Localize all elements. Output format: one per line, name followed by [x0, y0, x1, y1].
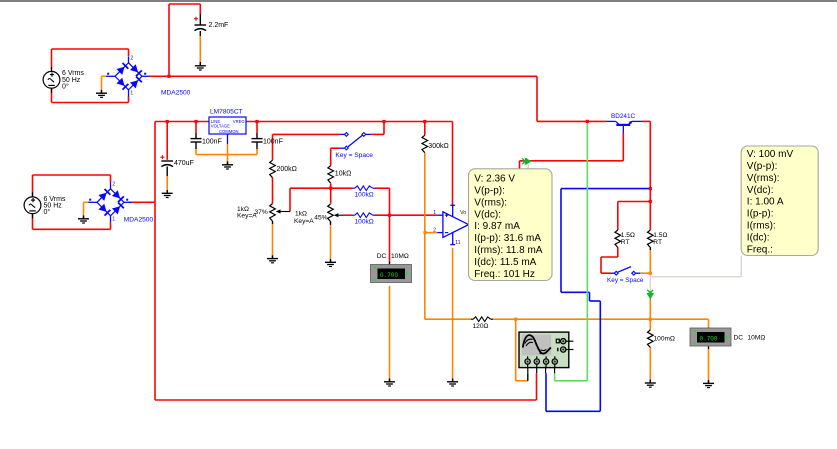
ground — [162, 190, 173, 197]
wire — [649, 347, 651, 380]
svg-text:2.2mF: 2.2mF — [209, 22, 229, 29]
wire — [649, 299, 651, 330]
svg-text:10MΩ: 10MΩ — [391, 253, 409, 260]
wire — [383, 122, 385, 135]
svg-text:V(rms):: V(rms): — [474, 197, 507, 208]
svg-text:BD241C: BD241C — [611, 113, 636, 120]
switch S1 — [340, 133, 345, 135]
wire — [389, 286, 391, 379]
wire — [331, 147, 340, 149]
wire — [32, 214, 34, 229]
ground — [195, 63, 206, 70]
wire — [515, 319, 517, 381]
svg-text:I(rms): 11.8 mA: I(rms): 11.8 mA — [474, 245, 542, 256]
svg-text:0°: 0° — [44, 208, 51, 216]
resistor R3 10k — [328, 166, 334, 184]
junction — [649, 187, 652, 190]
probe arrow — [525, 158, 532, 165]
multimeter XMM1 — [371, 265, 412, 283]
svg-text:I(dc):: I(dc): — [747, 233, 770, 244]
wire — [527, 373, 529, 381]
wire — [195, 142, 197, 149]
svg-text:DC: DC — [734, 334, 744, 341]
svg-text:1.5Ω: 1.5Ω — [621, 232, 635, 239]
wire — [154, 122, 156, 401]
svg-text:COMMON: COMMON — [219, 129, 239, 134]
svg-text:V(p-p):: V(p-p): — [747, 161, 778, 172]
ground — [222, 162, 233, 169]
svg-text:10kΩ: 10kΩ — [335, 170, 352, 177]
wire — [51, 49, 53, 70]
wire — [149, 75, 537, 77]
svg-text:V(dc):: V(dc): — [747, 185, 774, 196]
svg-text:470uF: 470uF — [174, 160, 194, 167]
capacitor C4 100nF — [252, 139, 263, 142]
probe arrow — [647, 293, 654, 300]
svg-text:V(dc):: V(dc): — [474, 209, 501, 220]
svg-text:V(p-p):: V(p-p): — [474, 185, 505, 196]
wire — [389, 262, 391, 265]
wire — [168, 4, 170, 76]
ground — [447, 379, 458, 386]
svg-text:RT: RT — [621, 239, 630, 246]
polarity mark C1 — [194, 17, 198, 21]
wire — [256, 122, 258, 134]
wire — [272, 221, 274, 224]
capacitor C3 100nF — [191, 139, 202, 142]
wire — [84, 201, 89, 203]
resistor R11 100m — [648, 330, 654, 348]
wire — [102, 75, 107, 77]
potentiometer R4 1k 45% — [328, 204, 334, 222]
wire — [330, 148, 332, 165]
wire — [166, 167, 168, 177]
resistor R1 200k — [270, 160, 276, 178]
AC source V1 — [43, 67, 60, 93]
svg-text:2: 2 — [433, 228, 436, 234]
wire — [199, 14, 201, 25]
wire — [199, 31, 201, 36]
ground — [645, 380, 656, 387]
junction — [649, 272, 652, 275]
resistor R10 120 — [471, 318, 473, 320]
wire — [493, 318, 709, 320]
svg-text:I(p-p):: I(p-p): — [747, 209, 774, 220]
oscilloscope XSC1 — [519, 332, 573, 368]
resistor R6 100k — [353, 187, 355, 189]
wire — [256, 142, 258, 149]
wire — [708, 319, 710, 327]
wire — [617, 202, 619, 231]
wire — [527, 163, 529, 169]
svg-text:Vo: Vo — [460, 210, 466, 216]
wire — [617, 247, 619, 257]
wire — [389, 215, 391, 261]
svg-text:RT: RT — [653, 239, 662, 246]
junction — [423, 231, 426, 234]
wire — [452, 248, 454, 379]
svg-text:100mΩ: 100mΩ — [654, 335, 675, 342]
wire — [289, 188, 291, 211]
wire — [330, 222, 332, 226]
wire — [375, 214, 437, 216]
junction — [329, 187, 332, 190]
wire — [649, 247, 651, 250]
junction — [423, 120, 426, 123]
svg-text:Freq.:: Freq.: — [747, 245, 773, 256]
ground — [267, 256, 278, 263]
wire — [649, 275, 651, 294]
resistor R9 1.5 RT — [648, 230, 654, 248]
junction — [167, 75, 170, 78]
svg-text:Freq.: 101 Hz: Freq.: 101 Hz — [474, 269, 535, 280]
multimeter XMM2 — [690, 328, 731, 346]
svg-text:1kΩ: 1kΩ — [295, 210, 307, 217]
wire — [166, 122, 168, 160]
wire — [273, 133, 340, 135]
ground — [384, 379, 395, 386]
wire — [708, 346, 710, 349]
wire — [195, 122, 197, 134]
svg-text:100nF: 100nF — [202, 138, 222, 145]
svg-text:100nF: 100nF — [263, 138, 283, 145]
wire — [424, 153, 426, 319]
svg-text:I: 9.87 mA: I: 9.87 mA — [474, 221, 520, 232]
wire — [32, 175, 34, 197]
wire — [586, 122, 588, 381]
polarity mark C2 — [160, 155, 164, 159]
svg-text:0.700: 0.700 — [380, 272, 398, 279]
potentiometer R2 1k 37% — [270, 204, 276, 222]
capacitor C1 2.2mF — [195, 25, 207, 31]
wire — [642, 120, 651, 122]
junction — [255, 120, 258, 123]
bridge rectifier D1 MDA2500 — [106, 57, 149, 97]
ground — [703, 380, 714, 387]
svg-text:V(rms):: V(rms): — [747, 173, 780, 184]
svg-text:2: 2 — [130, 55, 133, 61]
wire — [330, 183, 332, 203]
junction — [194, 120, 197, 123]
wire — [246, 121, 453, 123]
svg-text:DC: DC — [377, 253, 387, 260]
wire — [272, 134, 274, 160]
svg-text:300kΩ: 300kΩ — [428, 143, 448, 150]
wire — [130, 201, 156, 203]
svg-text:45%: 45% — [314, 214, 327, 221]
svg-text:120Ω: 120Ω — [473, 323, 489, 330]
wire — [425, 232, 438, 234]
svg-text:11: 11 — [455, 240, 460, 246]
switch S2 — [610, 272, 614, 274]
svg-text:VREG: VREG — [233, 119, 245, 124]
svg-text:LM7805CT: LM7805CT — [210, 109, 243, 116]
wire — [344, 214, 353, 216]
svg-text:2: 2 — [112, 181, 115, 187]
svg-text:100kΩ: 100kΩ — [355, 191, 374, 198]
wire — [51, 89, 53, 103]
transistor Q1 BD241C — [607, 120, 616, 122]
wire — [227, 144, 229, 161]
wire — [561, 188, 650, 190]
svg-text:I: 1.00 A: I: 1.00 A — [747, 197, 784, 208]
junction — [166, 120, 169, 123]
svg-text:100kΩ: 100kΩ — [355, 218, 374, 225]
svg-text:I(rms):: I(rms): — [747, 221, 776, 232]
junction — [649, 318, 652, 321]
op-amp U2 — [443, 212, 469, 238]
wire — [640, 272, 650, 274]
svg-text:1: 1 — [130, 91, 133, 97]
resistor R8 1.5 RT — [615, 230, 621, 248]
resistor R5 300k — [422, 135, 428, 153]
svg-text:I(dc): 11.5 mA: I(dc): 11.5 mA — [474, 257, 536, 268]
voltage regulator U1 LM7805CT — [209, 117, 246, 134]
svg-text:V: 100 mV: V: 100 mV — [747, 149, 794, 160]
svg-text:200kΩ: 200kΩ — [277, 166, 297, 173]
svg-text:MDA2500: MDA2500 — [124, 217, 154, 224]
tooltip probe 1 — [469, 169, 553, 281]
svg-text:0°: 0° — [62, 82, 69, 90]
svg-text:0.700: 0.700 — [700, 335, 718, 342]
svg-text:Key=A: Key=A — [294, 218, 314, 225]
svg-text:1: 1 — [112, 217, 115, 223]
junction — [388, 214, 391, 217]
tooltip probe 2 — [741, 146, 818, 256]
capacitor C2 470uF — [161, 161, 173, 167]
wire — [425, 318, 471, 320]
junction — [649, 200, 652, 203]
svg-text:I(p-p): 31.6 mA: I(p-p): 31.6 mA — [474, 233, 541, 244]
resistor R7 100k — [353, 214, 355, 216]
AC source V2 — [24, 192, 41, 218]
svg-text:Key = Space: Key = Space — [607, 277, 644, 284]
svg-text:37%: 37% — [255, 209, 268, 216]
bridge rectifier D2 MDA2500 — [88, 183, 131, 223]
ground — [325, 259, 336, 266]
scope terminal stubs — [527, 367, 529, 374]
junction — [382, 120, 385, 123]
wire — [272, 178, 274, 204]
svg-text:10MΩ: 10MΩ — [748, 334, 766, 341]
svg-text:Key = Space: Key = Space — [335, 152, 373, 159]
svg-text:V: 2.36 V: V: 2.36 V — [474, 173, 515, 184]
wire — [536, 76, 538, 121]
ground — [78, 216, 89, 223]
svg-text:MDA2500: MDA2500 — [161, 90, 191, 97]
wire — [622, 133, 624, 161]
junction — [514, 318, 517, 321]
wire — [196, 154, 257, 156]
wire — [424, 122, 426, 136]
svg-text:1: 1 — [433, 210, 436, 216]
svg-text:1.5Ω: 1.5Ω — [653, 232, 667, 239]
wire — [155, 121, 209, 123]
top toolbar edge — [0, 0, 837, 2]
junction — [586, 120, 589, 123]
wire — [375, 187, 390, 189]
ground — [96, 90, 107, 97]
